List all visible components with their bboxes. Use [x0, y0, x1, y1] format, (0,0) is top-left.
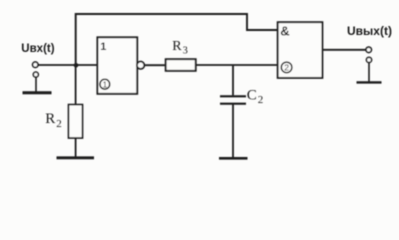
ground (output) [357, 81, 382, 83]
node junction [74, 63, 79, 68]
svg-text:2: 2 [258, 94, 264, 106]
svg-text:1: 1 [100, 41, 106, 53]
svg-text:2: 2 [284, 63, 289, 73]
wire C2 to ground [232, 104, 234, 158]
svg-text:3: 3 [183, 46, 188, 57]
wire input terminal to gate 1 [38, 64, 97, 66]
svg-text:1: 1 [103, 79, 108, 89]
pin number ② (circled 2) [281, 62, 292, 73]
svg-text:Uвых(t): Uвых(t) [347, 24, 392, 38]
lower output terminal [366, 57, 371, 62]
ground (input) [23, 91, 52, 94]
pin number ① (circled 1) [100, 79, 110, 89]
resistor R2 [69, 105, 83, 138]
wire gate 1 output to R3 [145, 64, 166, 66]
svg-text:Uвх(t): Uвх(t) [21, 43, 54, 55]
AND gate 2 (logic element "&") [278, 22, 323, 78]
inversion bubble (gate 1 output) [137, 61, 144, 68]
wire feedback (junction up, across top, down to gate 2 input 1) [76, 14, 278, 65]
svg-text:C: C [247, 87, 257, 103]
inverter gate 1 (logic element "1") [97, 37, 137, 94]
input terminal [33, 62, 38, 67]
svg-text:R: R [45, 111, 55, 127]
wire junction to resistor R2 [75, 65, 77, 105]
ground (C2) [219, 157, 248, 160]
resistor R3 [166, 59, 196, 71]
output terminal [366, 47, 371, 52]
lower input terminal [33, 72, 38, 77]
wire lower output terminal to ground [368, 63, 370, 82]
svg-text:&: & [280, 23, 289, 38]
svg-text:2: 2 [56, 118, 62, 130]
wire lower terminal to ground [35, 77, 37, 91]
wire R3 to gate 2 input 2 [196, 64, 278, 66]
capacitor C2 [220, 95, 246, 97]
wire gate 2 output to terminal [322, 49, 366, 51]
ground (R2) [57, 156, 95, 159]
svg-text:R: R [172, 39, 182, 54]
wire node to capacitor C2 [232, 65, 234, 95]
wire R2 to ground [75, 138, 77, 157]
